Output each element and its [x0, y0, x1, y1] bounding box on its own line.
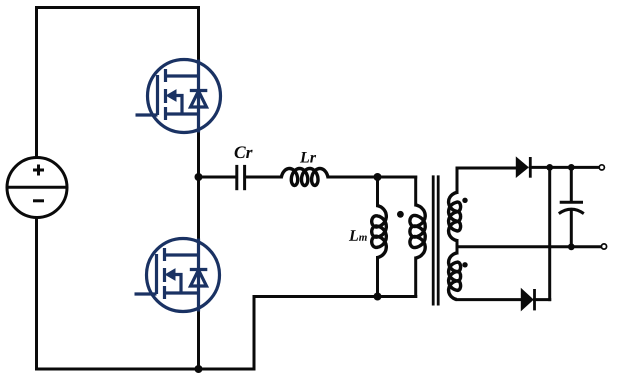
- label Cr: [235, 146, 253, 158]
- output capacitor: [559, 202, 584, 213]
- label Lm: [349, 230, 367, 240]
- Q1 drain-source rail: [197, 60, 200, 133]
- Q1 gate bar: [156, 75, 159, 115]
- terminal output negative: [601, 244, 606, 249]
- junction dot D1 output: [546, 164, 553, 171]
- Q2 body diode cathode bar: [190, 268, 208, 271]
- inductor Lm: [372, 206, 387, 258]
- DC source V1: [7, 158, 67, 218]
- wire D1 out to terminal: [530, 166, 599, 169]
- Q2 substrate arrow: [166, 269, 176, 280]
- Q2 drain lead: [165, 253, 199, 256]
- wire cap branch bottom: [570, 211, 573, 247]
- polarity dot secondary top: [462, 198, 467, 203]
- wire bridge rail: [197, 8, 200, 370]
- Q2 gate lead: [135, 292, 157, 295]
- wire mid node to Cr: [199, 176, 236, 179]
- transformer secondary winding bottom: [449, 253, 461, 300]
- transistor Q2 (power MOSFET): [135, 239, 220, 312]
- Q2 body connection: [175, 275, 182, 294]
- Q2 body diode triangle: [191, 270, 207, 286]
- wire Lr to primary top: [328, 176, 416, 179]
- transistor Q1 (power MOSFET): [136, 60, 221, 133]
- wire Lm branch top: [376, 177, 379, 206]
- junction dot bottom node: [195, 365, 203, 373]
- wire return vertical: [253, 297, 256, 370]
- Q1 source lead: [166, 112, 199, 115]
- wire left column bottom: [35, 218, 38, 370]
- Q2 channel segment top: [163, 248, 166, 261]
- Q2 drain-source rail: [197, 239, 200, 312]
- Q2 channel segment bottom: [163, 286, 166, 299]
- Q2 body circle: [147, 239, 220, 312]
- junction dot Lm bottom: [374, 293, 382, 301]
- transformer core: [433, 175, 438, 305]
- Q1 channel segment top: [164, 69, 167, 82]
- transformer primary winding: [410, 205, 425, 258]
- wire secondary bottom: [457, 298, 521, 301]
- polarity dot primary: [397, 211, 404, 218]
- wire primary bottom lead: [414, 258, 417, 297]
- wire secondary middle segment: [456, 241, 459, 254]
- wire left column top: [35, 8, 38, 158]
- Q1 channel segment bottom: [164, 107, 167, 120]
- wire riser D2 to top: [548, 167, 551, 299]
- junction dot Lm top: [374, 173, 382, 181]
- diode D1: [516, 157, 530, 178]
- wire secondary top: [457, 168, 516, 193]
- label Lr: [300, 152, 316, 162]
- wire bottom rail: [37, 368, 255, 371]
- Q2 gate bar: [155, 254, 158, 294]
- Q1 body connection: [176, 96, 183, 115]
- wire bottom diode to riser: [535, 298, 550, 301]
- Q1 gate lead: [136, 113, 158, 116]
- wire cap branch top: [570, 167, 573, 202]
- wire Lm branch bottom: [376, 258, 379, 297]
- Q1 drain lead: [166, 74, 199, 77]
- wire return horizontal: [254, 295, 416, 298]
- Q1 substrate arrow: [167, 90, 177, 101]
- Q2 source lead: [165, 291, 199, 294]
- polarity dot secondary bottom: [462, 262, 467, 267]
- wire Cr to Lr: [246, 176, 281, 179]
- Q1 body diode triangle: [191, 91, 207, 107]
- inductor Lr: [281, 169, 328, 186]
- junction dot cap bottom: [568, 243, 575, 250]
- wire primary top lead: [414, 177, 417, 205]
- terminal output positive: [599, 165, 604, 170]
- Q1 channel segment middle: [164, 89, 167, 103]
- Q2 channel segment middle: [163, 268, 166, 282]
- diode D2: [521, 289, 534, 311]
- junction dot cap top: [568, 164, 575, 171]
- junction dot mid node: [195, 173, 203, 181]
- transformer secondary winding top: [449, 193, 461, 241]
- Q1 body diode cathode bar: [190, 89, 208, 92]
- capacitor Cr: [237, 165, 245, 190]
- Q1 body circle: [148, 60, 221, 133]
- wire center tap: [457, 245, 601, 248]
- wire top rail: [37, 6, 199, 9]
